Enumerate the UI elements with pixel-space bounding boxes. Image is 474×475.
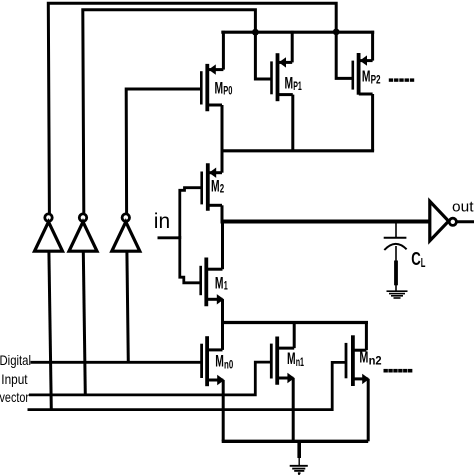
wire: Mn0 source vertical	[222, 380, 225, 441]
svg-text:P2: P2	[371, 74, 381, 86]
svg-text:M: M	[287, 349, 296, 368]
svg-text:1: 1	[224, 281, 228, 293]
transistor Mn0 (NMOS)	[202, 336, 225, 386]
svg-text:M: M	[359, 350, 368, 367]
svg-text:out: out	[452, 199, 474, 216]
wire: digital line 1 (Digital) to Mn0 gate	[31, 361, 202, 364]
node: junction dot wire A1 x VDD rail	[333, 29, 340, 36]
wire: NMOS drain rail	[221, 321, 368, 324]
wire: Mn1 source vertical	[292, 378, 295, 441]
wire: out line	[456, 220, 474, 223]
wire: M2 source vertical	[221, 151, 224, 173]
wire: MP2 drain vertical	[371, 94, 374, 151]
wire: MP1 source vertical	[291, 31, 294, 63]
wire: VDD rail (PMOS source rail)	[221, 31, 374, 34]
wire: M1 drain vertical to output	[221, 222, 224, 270]
wire: inverter A3 input from digital line 1	[127, 251, 128, 362]
wire: output node line	[221, 220, 430, 224]
svg-text:Digital: Digital	[0, 352, 31, 368]
svg-text:M: M	[285, 73, 294, 92]
svg-text:in: in	[154, 210, 170, 233]
wire: Mn0 drain vertical	[221, 323, 224, 350]
wire: digital line 3 to Mn2 gate	[28, 362, 347, 409]
svg-text:P0: P0	[223, 86, 232, 98]
wire: Mn1 drain vertical	[293, 323, 296, 349]
node: junction dot wire A2 x VDD rail	[252, 29, 259, 36]
svg-text:n1: n1	[296, 357, 305, 369]
wire: NMOS source rail (bottom)	[222, 440, 369, 443]
svg-text:M: M	[215, 274, 224, 293]
ground (main, below source rail)	[290, 441, 308, 475]
svg-text:L: L	[421, 255, 426, 270]
wire: M1 source vertical	[221, 299, 224, 322]
wire: inverter A1 output up and over to MP2 gate	[48, 3, 352, 213]
wire: M2 gate lead with jog from in node	[180, 188, 202, 239]
inverter U_out	[430, 201, 457, 241]
wire: Mn2 drain vertical (rail end)	[365, 323, 368, 351]
wire: MP2 source vertical (rail end)	[371, 31, 374, 61]
wire: MP0 drain vertical	[221, 105, 224, 151]
wire: in stub	[158, 236, 180, 239]
svg-text:Input: Input	[1, 371, 27, 387]
transistor MP2 (PMOS)	[353, 53, 373, 95]
svg-text:C: C	[411, 249, 421, 269]
svg-text:M: M	[215, 78, 224, 97]
wire: MP1 drain vertical	[291, 95, 294, 151]
inverter A1	[35, 214, 63, 251]
svg-text:M: M	[362, 69, 371, 86]
svg-text:M: M	[215, 352, 224, 371]
svg-text:n0: n0	[224, 359, 233, 371]
inverter A2	[69, 214, 97, 251]
wire: MP0 source vertical	[222, 31, 225, 70]
wire: inverter A2 input from digital line 2	[83, 251, 85, 395]
svg-text:P1: P1	[293, 81, 302, 93]
wire: inverter A2 output up and over to MP1 gate	[83, 10, 272, 214]
wire: digital line 2 to Mn1 gate	[29, 362, 271, 395]
dashes: more PMOS stages	[389, 78, 414, 81]
transistor Mn2 (NMOS)	[346, 335, 369, 386]
transistor MP1 (PMOS)	[272, 53, 293, 101]
wire: Mn2 source vertical	[367, 379, 370, 441]
svg-text:n2: n2	[369, 355, 382, 367]
wire: inverter A3 output up and over to MP0 gate	[126, 89, 201, 214]
dashes: more NMOS stages	[384, 369, 413, 373]
svg-text:M: M	[211, 177, 220, 196]
svg-text:vector: vector	[0, 389, 29, 405]
wire: inverter A1 input from digital line 3	[49, 251, 51, 409]
svg-text:2: 2	[220, 183, 224, 195]
wire: M1 gate lead with jog from in node	[180, 236, 201, 283]
transistor M1 (NMOS)	[201, 258, 224, 307]
inverter A3	[112, 214, 140, 251]
transistor M2 (PMOS)	[202, 163, 222, 211]
capacitor C_L	[384, 222, 407, 292]
transistor MP0 (PMOS)	[201, 64, 223, 111]
wire: node A rail (PMOS drains to M2 source)	[221, 149, 375, 152]
transistor Mn1 (NMOS)	[271, 337, 294, 385]
wire: M2 drain vertical to output	[221, 205, 224, 221]
ground (under CL)	[387, 291, 408, 298]
